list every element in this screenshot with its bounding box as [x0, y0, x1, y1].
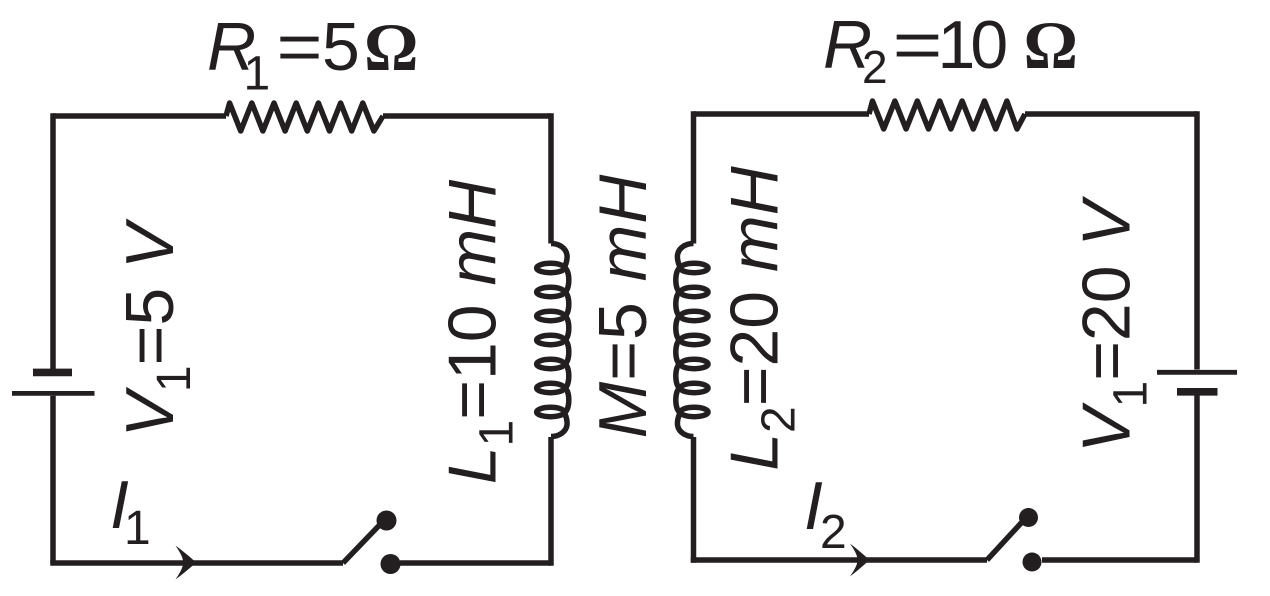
svg-text:R2=10Ω: R2=10Ω [823, 7, 1078, 93]
wire left circuit top right [383, 113, 551, 119]
svg-text:R1=5Ω: R1=5Ω [207, 9, 418, 101]
inductor L1 connector arcs [564, 268, 569, 412]
inductor L2 connector arcs [676, 268, 681, 412]
svg-text:V1=5 V: V1=5 V [112, 218, 201, 437]
switch S2 [987, 508, 1042, 572]
inductor L1 bottom hook [551, 412, 567, 437]
wire left circuit top [53, 113, 226, 119]
svg-text:L2=20 mH: L2=20 mH [717, 165, 806, 470]
inductor L1 top hook [551, 244, 567, 269]
wire right circuit top [694, 111, 870, 117]
resistor R2 [869, 101, 1025, 129]
wire left circuit left side [50, 113, 56, 369]
resistor R1 [226, 103, 383, 131]
inductor L2 bottom hook [677, 412, 693, 437]
svg-text:I1: I1 [110, 467, 151, 555]
battery V2 right [1157, 372, 1237, 392]
svg-text:L1=10 mH: L1=10 mH [435, 179, 524, 484]
wire below battery V2 [1194, 394, 1200, 562]
inductor L2 top hook [677, 244, 693, 269]
arrow I2 current direction [850, 544, 870, 577]
wire right circuit left side lower [691, 437, 697, 563]
battery V1 left [12, 372, 95, 393]
arrow I1 current direction [176, 546, 197, 580]
wire left circuit right side upper [548, 113, 554, 243]
wire switch S1 to right [400, 560, 551, 566]
wire right circuit left side upper [691, 111, 697, 243]
inductor L1 coil loops [537, 263, 565, 416]
wire right circuit right side [1194, 111, 1200, 369]
svg-text:I2: I2 [804, 468, 847, 559]
wire left circuit right side lower [548, 437, 554, 566]
svg-text:V1=20 V: V1=20 V [1069, 196, 1158, 453]
switch S1 [343, 511, 401, 575]
svg-text:M=5 mH: M=5 mH [585, 174, 661, 439]
inductor L2 coil loops [680, 263, 708, 416]
wire switch S2 to right [1042, 557, 1197, 563]
wire right circuit top right [1025, 111, 1197, 117]
wire below battery V1 [50, 396, 56, 563]
wire right circuit bottom [691, 557, 987, 563]
wire left circuit bottom [50, 560, 343, 566]
